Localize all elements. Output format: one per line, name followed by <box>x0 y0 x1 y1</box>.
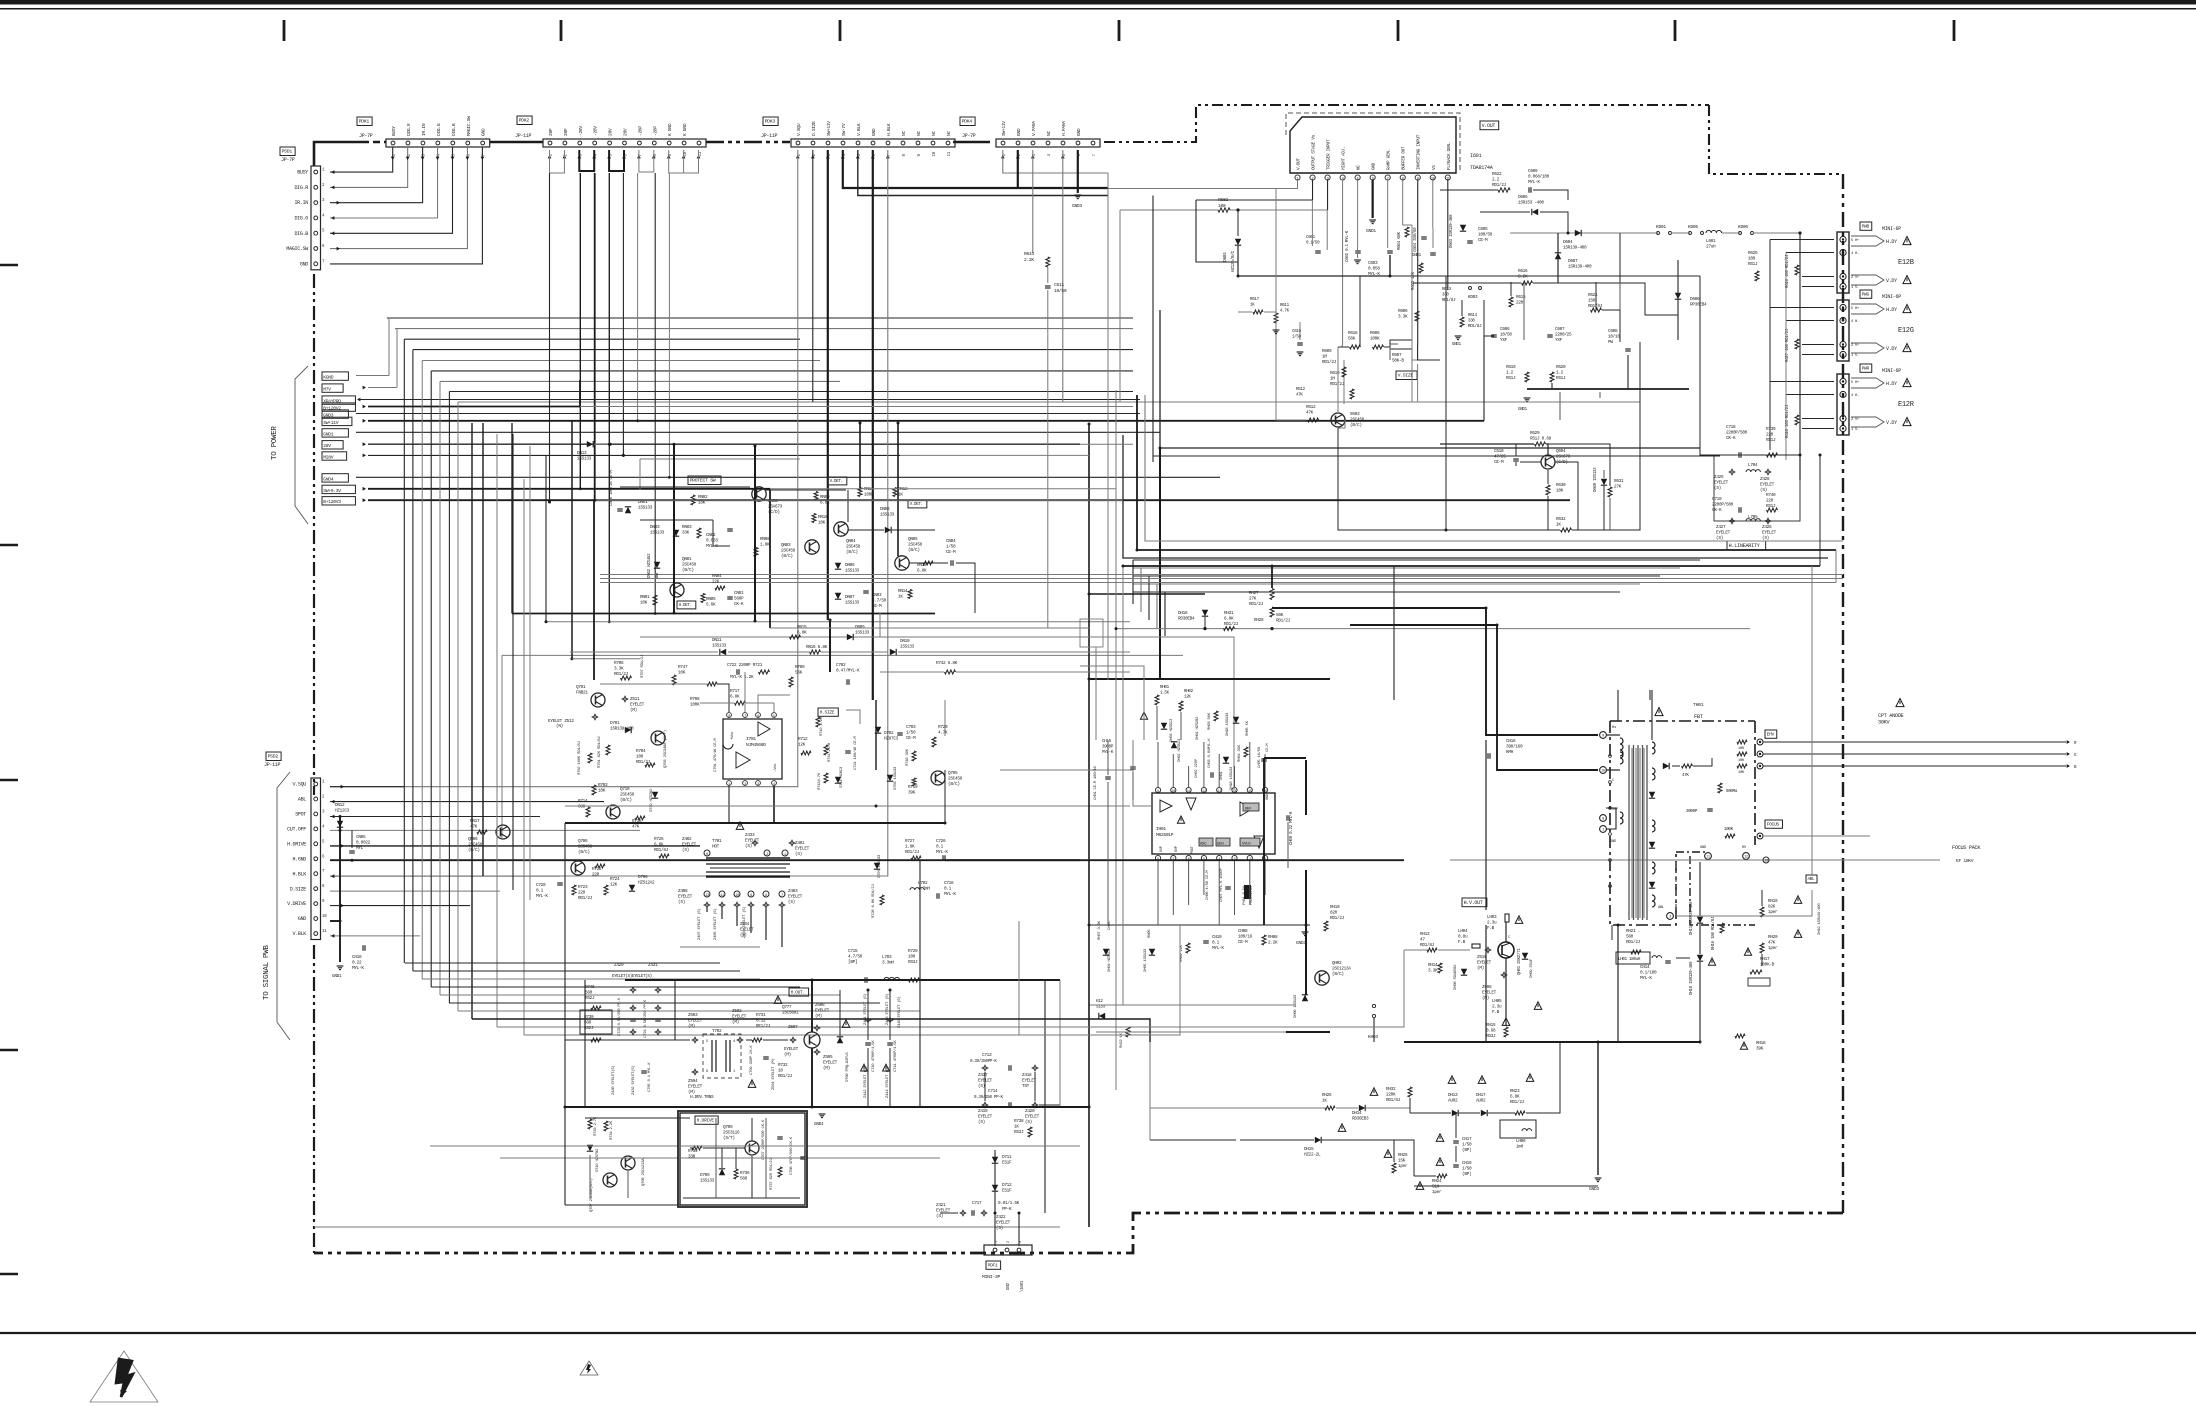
svg-text:RD1/2J: RD1/2J <box>1276 619 1291 624</box>
connector PDK3 JP-11P pin 5 <box>856 141 860 145</box>
ground GND1 PSD2 <box>339 969 341 971</box>
wire vsec S <box>1337 347 1339 413</box>
svg-text:2 V+: 2 V+ <box>1851 344 1860 348</box>
svg-text:(C/D): (C/D) <box>1556 460 1568 465</box>
diode DN09 <box>847 634 853 640</box>
wire R717 right <box>746 702 774 704</box>
svg-text:Q709: Q709 <box>723 1125 733 1130</box>
IC IH01 top pin 12 <box>1201 787 1206 792</box>
svg-text:PDK2: PDK2 <box>519 118 530 124</box>
pcb boundary pdk1-pdk2 <box>490 141 543 144</box>
wire long vertical <box>1088 679 1090 1227</box>
resistor RH02 <box>1179 701 1183 711</box>
capacitor C605 <box>1467 242 1473 244</box>
capacitor CN01 <box>727 596 733 598</box>
wire C609 right <box>1533 190 1568 200</box>
svg-text:Z502: Z502 <box>732 1009 742 1014</box>
eyelet Z429 <box>630 987 636 993</box>
svg-text:R734 2.2K: R734 2.2K <box>610 1120 614 1140</box>
svg-text:RH08: RH08 <box>1268 935 1278 940</box>
wire hout bottom bus <box>565 1106 980 1108</box>
resistor R702 <box>588 753 592 763</box>
warning triangle D708 <box>842 1020 850 1028</box>
resistor RH23 <box>1515 1111 1525 1115</box>
svg-text:D607: D607 <box>1568 259 1578 264</box>
resistor R629 <box>1535 442 1546 446</box>
warning triangle PWG H.DY <box>1903 305 1911 313</box>
svg-text:3000P: 3000P <box>1686 810 1698 814</box>
capacitor C609 <box>1528 187 1530 193</box>
wire DN08 wire <box>848 529 884 531</box>
svg-text:4.7K: 4.7K <box>1280 309 1290 313</box>
svg-text:C713: C713 <box>982 1053 992 1058</box>
warning triangle ch17 <box>1436 1134 1444 1142</box>
connector PSD2 JP-11P pin 7 <box>314 872 318 876</box>
svg-text:R610: R610 <box>1330 371 1340 376</box>
warning triangle rh20 <box>1794 930 1802 938</box>
wire RN15-DN09 <box>770 636 789 638</box>
bracket TO POWER <box>295 366 308 524</box>
svg-text:R619: R619 <box>1506 365 1516 370</box>
svg-text:Z403: Z403 <box>788 889 798 894</box>
svg-text:600Ma: 600Ma <box>1726 790 1738 794</box>
wire PSD2 H.DRIVE <box>330 845 700 847</box>
connector PDK2 JP-11P pin 11 <box>697 141 701 145</box>
svg-text:EYELET: EYELET <box>788 895 803 900</box>
svg-text:CH01 CE-M 100/16: CH01 CE-M 100/16 <box>1093 765 1098 800</box>
wire vertical feeder 1 <box>412 350 414 971</box>
wire rh23 right <box>1526 1042 1560 1113</box>
eyelet Z431 <box>655 987 661 993</box>
svg-text:10/50: 10/50 <box>1500 333 1512 338</box>
wire long vertical <box>1122 566 1124 1005</box>
svg-text:27K: 27K <box>1249 597 1257 602</box>
wire q705 col <box>944 770 946 823</box>
svg-text:-28P: -28P <box>637 126 643 136</box>
svg-text:\1001: \1001 <box>1020 1280 1025 1292</box>
svg-text:PDK1: PDK1 <box>359 119 370 125</box>
svg-text:C601: C601 <box>1306 236 1316 240</box>
svg-text:H.GND: H.GND <box>292 856 306 862</box>
arrowhead PDK4 pin 1 <box>1001 155 1005 158</box>
svg-text:RS1J 0.68: RS1J 0.68 <box>1530 437 1552 442</box>
bottom rule <box>0 1332 2196 1334</box>
svg-text:R7134.7K: R7134.7K <box>818 772 822 790</box>
transformer T701 winding bar <box>706 859 790 861</box>
svg-text:DIG.B: DIG.B <box>451 123 457 136</box>
transformer T702 primary bar <box>715 1040 717 1072</box>
IC I601 pin 1 circle <box>1295 175 1300 180</box>
svg-text:0.68: 0.68 <box>1486 1029 1496 1034</box>
svg-text:JP-7P: JP-7P <box>281 157 295 163</box>
svg-text:C701 470/16 CE-M: C701 470/16 CE-M <box>713 737 718 772</box>
connector PDF1 pin 3 <box>1017 1248 1021 1252</box>
svg-text:T702: T702 <box>712 1029 722 1034</box>
svg-text:0.39/250 PP-K: 0.39/250 PP-K <box>974 1095 1004 1100</box>
wire right col 2 <box>1819 455 1821 566</box>
resistor R711 <box>824 745 828 755</box>
label ABL right <box>1806 875 1817 883</box>
svg-text:QN01: QN01 <box>682 557 692 562</box>
capacitor C510 <box>1513 460 1519 462</box>
warning triangle PWB V.DY <box>1903 276 1911 284</box>
svg-text:RS3J: RS3J <box>908 960 918 965</box>
diode D712 <box>992 1185 998 1191</box>
svg-text:V.OUT: V.OUT <box>1297 158 1302 170</box>
svg-text:2200/25: 2200/25 <box>1555 333 1572 338</box>
svg-text:1per: 1per <box>1768 946 1778 951</box>
wire vsec M <box>1619 233 1621 342</box>
svg-text:LH04: LH04 <box>1458 929 1468 934</box>
wire caps col d <box>889 1048 891 1107</box>
wire net M28V <box>368 454 900 456</box>
ground GND3 below PDK4 <box>1074 194 1081 196</box>
wire corner bus horizontal 1 <box>395 328 1133 330</box>
wire ih01 gray row <box>1089 1004 1296 1006</box>
resistor R616 <box>1522 281 1533 285</box>
capacitor CN05 <box>349 850 355 852</box>
svg-text:6.8K: 6.8K <box>1510 1095 1520 1100</box>
resistor R708 <box>707 682 717 686</box>
wire feeder turn 0 <box>405 962 720 964</box>
svg-text:NC: NC <box>946 131 952 136</box>
svg-text:CE-M: CE-M <box>906 736 916 741</box>
svg-text:0.47/MYL-K: 0.47/MYL-K <box>836 669 860 674</box>
arrowhead net B+120V2 <box>363 405 366 409</box>
resistor R627 <box>1795 339 1799 349</box>
svg-text:RD1/8J: RD1/8J <box>1442 298 1456 303</box>
svg-text:RS2J: RS2J <box>585 996 595 1001</box>
transistor QN02 <box>756 490 758 499</box>
wire PDK4 pin1 drop <box>1003 150 1108 173</box>
connector PSD2 JP-11P pin 8 <box>314 887 318 891</box>
wire mini6p H- feed <box>1786 394 1834 396</box>
svg-text:1: 1 <box>1602 829 1604 833</box>
svg-text:6: 6 <box>706 1070 708 1074</box>
transistor Q706 <box>576 863 583 867</box>
svg-text:Q703 2SC3468 (E/F): Q703 2SC3468 (E/F) <box>663 730 668 768</box>
svg-text:10K: 10K <box>818 521 826 526</box>
svg-text:GND: GND <box>481 128 487 136</box>
arrowhead from PSD1 <box>337 247 340 251</box>
arrowhead R <box>2067 740 2070 744</box>
svg-text:CPT ANODE: CPT ANODE <box>1878 713 1904 719</box>
inductor L702 <box>910 888 924 890</box>
eyelet Z512 <box>592 714 598 720</box>
svg-text:5 H+: 5 H+ <box>1851 307 1860 311</box>
junction PDK2 drop 1 <box>579 487 582 490</box>
arrowhead PSD2 ABL <box>331 800 334 804</box>
svg-text:330: 330 <box>1468 319 1475 323</box>
svg-text:RH03 56K: RH03 56K <box>1208 712 1212 730</box>
capacitor CN06 <box>617 510 623 512</box>
svg-text:RN01: RN01 <box>640 595 650 600</box>
resistor RH10 <box>1324 921 1328 931</box>
svg-text:EYELET: EYELET <box>978 1115 993 1120</box>
svg-text:CH10: CH10 <box>1212 935 1222 940</box>
wire PDK2 pin10-11 link <box>684 150 699 173</box>
transistor QN05 <box>900 565 907 569</box>
connector PSD1 JP-7P pin 5 <box>314 231 318 235</box>
IC IH01 top pin 9 <box>1155 787 1160 792</box>
svg-text:1 V-: 1 V- <box>1851 354 1859 358</box>
transistor Q503 <box>1336 422 1343 426</box>
svg-text:10K: 10K <box>1738 759 1745 763</box>
transistor Q703 <box>655 734 657 743</box>
resistor RH25 <box>1392 1163 1396 1173</box>
transistor QN04 <box>838 525 840 534</box>
svg-text:Z404: Z404 <box>740 923 750 927</box>
svg-text:HZ22-2L: HZ22-2L <box>1304 1153 1321 1158</box>
FBT secondary winding 3 <box>1652 862 1655 874</box>
FBT boundary inner <box>1676 851 1708 853</box>
connector PWR MINI-6P pin 1 <box>1840 391 1846 397</box>
resistor R621 <box>1591 308 1602 312</box>
pcb boundary bottom right <box>314 1213 1843 1253</box>
svg-text:H.DRV.TRNS: H.DRV.TRNS <box>690 1095 714 1100</box>
wire mini6p H+ feed <box>1770 239 1834 241</box>
connector PDK4 JP-7P pin 3 <box>1031 141 1035 145</box>
connector PDK3 JP-11P pin 9 <box>916 141 920 145</box>
svg-text:YXF: YXF <box>1555 338 1563 343</box>
label H.DRIVE <box>695 1116 718 1124</box>
resistor R729 <box>909 978 920 982</box>
I701 bottom pin 2 <box>743 781 748 786</box>
resistor R614 <box>1460 317 1464 327</box>
diode DH17 <box>1481 1110 1487 1116</box>
wire bottom row 1b <box>1336 1107 1358 1109</box>
wire PDK2 pin9-10 link <box>669 150 684 173</box>
svg-text:D711: D711 <box>1002 1155 1012 1160</box>
arrowhead PDK2 pin 4 <box>592 155 596 158</box>
svg-text:DH08 RD16EB2: DH08 RD16EB2 <box>1454 964 1458 990</box>
transistor QN02 <box>757 489 764 493</box>
resistor R731 <box>752 1038 762 1042</box>
capacitor C716 <box>936 893 938 899</box>
transistor Q710 <box>606 805 620 819</box>
registration tick <box>1674 20 1677 41</box>
svg-text:1SR139-400: 1SR139-400 <box>1568 265 1592 270</box>
svg-text:BUSY: BUSY <box>391 126 397 136</box>
svg-text:RH01: RH01 <box>1160 686 1170 690</box>
svg-text:820: 820 <box>1330 911 1338 916</box>
eyelet Z426 <box>1765 469 1771 475</box>
connector PSD1 JP-7P pin 6 <box>314 247 318 251</box>
FBT core bar <box>1635 748 1637 918</box>
svg-text:2SA673: 2SA673 <box>1556 455 1571 460</box>
svg-text:DH04 HZS5C3: DH04 HZS5C3 <box>1108 948 1112 972</box>
wire I601 pin10 <box>1432 180 1434 228</box>
ground GND3 ih01 <box>1302 931 1309 933</box>
svg-text:3.3mH: 3.3mH <box>882 961 894 966</box>
arrowhead net M28V <box>363 454 366 458</box>
svg-text:Z425: Z425 <box>1714 475 1724 480</box>
svg-text:1 V-: 1 V- <box>1851 428 1859 432</box>
eyelet Z401 star <box>789 840 795 846</box>
svg-text:QN06: QN06 <box>468 837 478 842</box>
capacitor C709 <box>763 1058 769 1060</box>
inductor LH06 winding <box>1522 1129 1532 1131</box>
wire cluster left <box>1700 448 1714 455</box>
resistor R704 <box>645 763 655 767</box>
capacitor C726 <box>944 855 946 861</box>
svg-text:R709: R709 <box>795 665 805 670</box>
wire eyelet 11 drop <box>721 908 723 919</box>
capacitor CH07 <box>1225 888 1231 890</box>
arrowhead PSD2 V.SQU <box>341 785 344 789</box>
inductor L601 <box>1706 230 1722 233</box>
FBT terminal 11 <box>1705 853 1712 860</box>
eyelet Z418 <box>1032 1065 1038 1071</box>
resistor R719 <box>912 778 916 786</box>
svg-text:C609: C609 <box>1528 169 1538 174</box>
diode DH12 <box>1099 1013 1105 1019</box>
transistor Q706 <box>576 870 583 874</box>
svg-text:Z418: Z418 <box>1022 1073 1032 1078</box>
eyelet below terminal 11 <box>719 902 725 908</box>
arrowhead PSD2 V.DRIVE <box>341 904 344 908</box>
wire PDK1 pin 7 to PSD1 <box>330 147 482 264</box>
arrowhead PSD2 H.BLK <box>331 874 334 878</box>
resistor R701 <box>606 745 610 755</box>
connector PWB MINI-6P pin 2 <box>1840 273 1846 279</box>
eyelet Z511 <box>622 696 628 702</box>
svg-text:DH01 HZS2B2: DH01 HZS2B2 <box>1196 716 1200 740</box>
svg-text:D.SIZE: D.SIZE <box>811 121 817 136</box>
IC I601 pin 9 circle <box>1415 175 1420 180</box>
svg-text:0.22: 0.22 <box>352 961 362 966</box>
ground GND3 right <box>1595 1177 1602 1179</box>
resistor R626 <box>1795 265 1799 275</box>
svg-text:6.8K: 6.8K <box>797 631 807 636</box>
connector PDK2 JP-11P pin 5 <box>608 141 612 145</box>
capacitor C720 <box>557 884 563 886</box>
wire PSD2 ABL <box>330 801 604 803</box>
svg-text:100: 100 <box>1748 257 1756 262</box>
svg-text:Q604: Q604 <box>1556 449 1566 454</box>
connector PDK1 JP-7P pin 5 <box>451 141 455 145</box>
jumper contact <box>1739 232 1742 235</box>
wire mid row line c <box>821 651 888 653</box>
connector label PWG <box>1860 290 1872 298</box>
connector PWB MINI-6P pin 0 <box>1840 236 1846 242</box>
arrowhead PDK2 pin 6 <box>622 155 626 158</box>
wire hv bus 6 <box>1123 565 1820 567</box>
resistor RN13 <box>923 561 933 565</box>
svg-text:D702: D702 <box>884 731 894 736</box>
svg-text:3.3K: 3.3K <box>1398 315 1408 320</box>
resistor R747 <box>672 675 676 685</box>
svg-text:EYELET: EYELET <box>630 703 645 708</box>
wire mini6p feeder B <box>1785 253 1787 461</box>
transistor Q709 <box>749 1144 751 1153</box>
svg-text:1K: 1K <box>1014 1125 1019 1130</box>
connector PSD2 JP-11P pin 6 <box>314 857 318 861</box>
transistor Q701 <box>591 693 605 707</box>
svg-text:2: 2 <box>766 853 768 857</box>
wire vsec H <box>1567 212 1569 233</box>
resistor R632 <box>1561 528 1572 532</box>
arrowhead PDK2 pin 10 <box>682 155 686 158</box>
eyelet below terminal 9 <box>748 902 754 908</box>
wire eyelet cluster frame <box>1714 455 1800 521</box>
wire PDK2 drop 1 <box>579 173 581 489</box>
svg-text:DH09 ES1F: DH09 ES1F <box>1530 958 1534 978</box>
svg-text:CK-K: CK-K <box>734 602 744 607</box>
svg-text:R710 2.2K: R710 2.2K <box>820 716 824 736</box>
ground GND1 R619 <box>1526 401 1528 403</box>
svg-text:MINI-6P: MINI-6P <box>1882 226 1901 232</box>
T701 terminal 6 <box>704 850 710 856</box>
resistor R619 <box>1525 372 1529 382</box>
svg-text:RS1J: RS1J <box>1748 262 1758 267</box>
svg-text:11: 11 <box>1706 855 1710 859</box>
svg-text:R739: R739 <box>1766 427 1776 432</box>
svg-text:CH19: CH19 <box>1462 1161 1472 1166</box>
arrowhead PDK3 pin 1 <box>796 155 800 158</box>
wire right bus vertical 1 <box>1140 568 1142 612</box>
svg-text:R609: R609 <box>1322 349 1332 354</box>
connector PDK3 JP-11P pin 4 <box>841 141 845 145</box>
svg-text:6: 6 <box>757 715 759 719</box>
wire protect top <box>640 458 800 460</box>
svg-text:11: 11 <box>699 151 703 156</box>
wire PSD2 H.BLK <box>330 875 560 877</box>
svg-text:2SC458: 2SC458 <box>1350 418 1365 423</box>
svg-text:RD1/8J: RD1/8J <box>1468 324 1482 329</box>
capacitor C723 <box>630 1018 636 1020</box>
capacitor C717 <box>971 1210 973 1216</box>
svg-text:22K: 22K <box>712 580 720 585</box>
transistor Q709 <box>745 1141 759 1155</box>
svg-text:Z505: Z505 <box>823 1055 833 1060</box>
eyelet C724 top <box>655 1005 661 1011</box>
svg-text:4.7/50: 4.7/50 <box>872 599 887 604</box>
svg-text:CN04: CN04 <box>946 539 956 544</box>
wire right bus 3 <box>1133 583 1640 585</box>
op-amp I701 notch <box>723 744 733 749</box>
svg-text:1SR139-400: 1SR139-400 <box>1563 246 1587 251</box>
zener DH08 <box>1461 969 1467 975</box>
svg-text:GND4: GND4 <box>323 476 334 482</box>
FBT primary winding <box>1620 738 1623 756</box>
I701 top pin 7 <box>743 713 748 718</box>
capacitor CH16 <box>1487 753 1489 759</box>
svg-text:AU02: AU02 <box>1476 1099 1486 1104</box>
svg-text:1SS133: 1SS133 <box>577 457 592 462</box>
eyelet Z508 <box>1501 972 1507 978</box>
wire R629 node <box>1546 444 1548 455</box>
transistor Q503 <box>1331 413 1345 427</box>
transistor QN01 <box>670 583 684 597</box>
svg-text:GND1: GND1 <box>1452 343 1462 347</box>
svg-text:EYELET: EYELET <box>823 1061 838 1066</box>
transistor Q707 <box>603 1173 617 1187</box>
transistor Q705 <box>931 771 945 785</box>
wire CN05 col <box>351 830 353 848</box>
capacitor C713 <box>1010 1065 1012 1071</box>
svg-text:R724: R724 <box>610 877 620 882</box>
wire c713 loop <box>984 1072 986 1101</box>
svg-text:47K: 47K <box>1296 393 1303 397</box>
svg-text:1K: 1K <box>1556 523 1561 528</box>
svg-text:1SS133: 1SS133 <box>855 631 870 636</box>
svg-text:10: 10 <box>933 151 937 156</box>
diode D701 <box>625 727 631 733</box>
wire vsec C <box>1160 310 1700 448</box>
wire fbt feed 2 <box>1350 625 1598 770</box>
junction RH28 <box>1270 627 1273 630</box>
